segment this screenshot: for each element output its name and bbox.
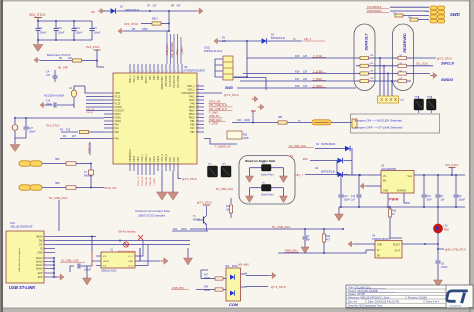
svg-text:PB10: PB10	[134, 155, 136, 161]
svg-text:100nF: 100nF	[441, 267, 448, 269]
connector CN1 shield pin 2	[44, 261, 54, 263]
svg-text:IN: IN	[377, 250, 380, 252]
ground arrow U5 bottom vss1	[161, 171, 163, 192]
svg-text:100nF: 100nF	[40, 32, 47, 35]
power arrow right of STLK_RX rows	[254, 96, 258, 102]
power arrow U4 IN	[348, 241, 352, 247]
svg-text:NC: NC	[298, 121, 302, 123]
ground arrow mid bottom	[187, 248, 189, 258]
wire crystal to OSC pins	[73, 86, 75, 90]
svg-text:2: 2	[198, 109, 199, 111]
svg-text:100nF: 100nF	[29, 131, 36, 134]
svg-text:PA10: PA10	[153, 155, 156, 161]
wire vertical tie of filters	[90, 164, 92, 188]
svg-text:1uF: 1uF	[46, 74, 51, 77]
svg-text:C16: C16	[427, 196, 432, 198]
svg-text:100nF: 100nF	[84, 269, 91, 272]
connector SWD header CN2 pins	[430, 6, 437, 10]
wire 5V_STLK rail after D1	[117, 10, 197, 12]
svg-text:USB ST-LINK: USB ST-LINK	[9, 285, 36, 290]
svg-text:ID: ID	[40, 248, 43, 251]
svg-text:DM: DM	[39, 240, 43, 243]
svg-text:RESERVED: RESERVED	[403, 33, 407, 53]
svg-text:EN: EN	[377, 256, 381, 258]
svg-text:PNP423-11-04-Q: PNP423-11-04-Q	[204, 50, 222, 53]
wire filter1 to resistor	[42, 163, 66, 165]
svg-text:CN1: CN1	[10, 222, 15, 225]
wire 5V_USB_CHG vertical	[58, 200, 60, 231]
power arrow LD4 anode	[272, 273, 276, 279]
svg-text:R14: R14	[204, 287, 209, 289]
resistor R19 near SWD	[395, 14, 403, 17]
ground arrow under C17	[86, 266, 88, 278]
svg-text:SWDIO: SWDIO	[441, 78, 453, 82]
svg-text:PWR_ENn: PWR_ENn	[209, 118, 222, 122]
power arrow solder point 2 left	[246, 196, 254, 203]
wire U3 EN	[366, 185, 381, 187]
ground arrow U3 rail	[338, 207, 340, 214]
dnf marker cross 2	[138, 235, 143, 240]
svg-text:100nF: 100nF	[344, 200, 351, 202]
wire solder point 2 left	[250, 187, 262, 189]
svg-text:USB_DP: USB_DP	[150, 177, 152, 186]
wire U3 Vin stub	[372, 174, 381, 176]
wire after D2 with net labels	[268, 40, 303, 42]
svg-text:2: 2	[198, 98, 199, 100]
diode D4 BAT60JFILM	[305, 174, 337, 176]
ground arrow under C31	[301, 247, 309, 254]
svg-text:PB5: PB5	[158, 75, 160, 80]
svg-text:STLK_RX: STLK_RX	[104, 186, 117, 190]
connector CN11 pin 2	[215, 64, 223, 66]
svg-text:2K7: 2K7	[153, 5, 158, 8]
svg-text:R20: R20	[408, 17, 411, 19]
svg-text:1: 1	[175, 71, 176, 73]
svg-text:5V_USB_CHG: 5V_USB_CHG	[49, 196, 68, 200]
svg-text:100R: 100R	[244, 119, 250, 122]
svg-text:2: 2	[198, 102, 199, 104]
wire T_NRST row	[232, 122, 278, 124]
ground arrow under C8	[434, 280, 443, 287]
svg-text:R18: R18	[295, 85, 300, 88]
capacitor C1 100nF	[37, 21, 39, 28]
svg-text:DNF: DNF	[251, 110, 257, 113]
svg-text:VBUS: VBUS	[36, 236, 43, 239]
svg-text:life.augmented: life.augmented	[450, 305, 461, 308]
wire SWDIO to SWD header	[390, 10, 429, 12]
svg-text:PB12: PB12	[158, 155, 160, 161]
svg-text:OSCIN: OSCIN	[115, 107, 123, 109]
svg-text:T_JRST: T_JRST	[209, 122, 219, 126]
svg-text:VSS_1: VSS_1	[142, 154, 144, 162]
wire CN11 to D2 node	[233, 41, 247, 77]
svg-text:VSS_1: VSS_1	[187, 89, 195, 91]
svg-text:4K7: 4K7	[177, 5, 182, 8]
wire jumper row 4 to CN4 strap	[376, 80, 394, 82]
svg-text:5V_: 5V_	[290, 155, 295, 158]
svg-text:PA7: PA7	[190, 127, 195, 130]
wire OSC_IN	[85, 86, 104, 93]
capacitor C27 100nF	[25, 118, 27, 126]
svg-text:R15: R15	[392, 211, 397, 213]
capacitor C3 100nF	[91, 21, 93, 28]
svg-text:SB5: SB5	[55, 182, 60, 185]
svg-text:PB8: PB8	[142, 75, 144, 80]
svg-text:1: 1	[171, 71, 172, 73]
svg-text:PB12: PB12	[189, 117, 195, 119]
jumper CN4 row 3 default side	[356, 73, 360, 75]
svg-text:3V3_STLK: 3V3_STLK	[86, 45, 100, 49]
wire U1 pins right	[135, 241, 143, 257]
power arrow left of C14	[40, 102, 43, 108]
svg-text:1: 1	[179, 71, 180, 73]
svg-text:PC14: PC14	[115, 100, 121, 102]
wire T_JTCK to jumper block	[247, 57, 356, 59]
jumper CN4 row 2 reserved side	[394, 65, 398, 67]
wire down from R4 node	[97, 61, 104, 68]
wire U3 Vout rail	[414, 174, 465, 176]
wire U5 left pin feed	[86, 96, 104, 98]
svg-text:PB9: PB9	[138, 75, 140, 80]
diode D2 BAT60JFILM	[219, 40, 261, 42]
wire U3 BYPASS stub	[404, 193, 410, 203]
svg-text:SWCLK: SWCLK	[441, 62, 455, 66]
svg-text:R17: R17	[295, 78, 300, 81]
svg-text:Jumpers ON --> NUCLEO Select: Jumpers ON --> NUCLEO Selected	[354, 119, 402, 123]
net 3V3_STLK stub right of bottom pins	[178, 171, 181, 179]
svg-text:USB_DTA: USB_DTA	[172, 286, 184, 290]
svg-text:SB: SB	[58, 67, 62, 70]
solder point SB6 black package	[262, 165, 272, 172]
connector pins right of LD4	[241, 273, 247, 275]
svg-text:C10: C10	[58, 27, 63, 30]
svg-text:CN4: CN4	[370, 78, 374, 80]
wire U1 pins left	[96, 255, 101, 257]
svg-text:Dnf For Nucleo: Dnf For Nucleo	[118, 230, 136, 234]
power arrow solder point 1 left	[246, 176, 254, 183]
svg-text:100nF: 100nF	[94, 32, 101, 35]
wire solder point 1 left	[250, 167, 262, 169]
svg-text:STL_USB_D_P: STL_USB_D_P	[209, 107, 227, 111]
svg-text:GND: GND	[37, 252, 43, 255]
jumper CN4 row 1 default side	[356, 57, 360, 59]
svg-text:PA5: PA5	[115, 131, 120, 134]
svg-text:PA9: PA9	[149, 157, 152, 162]
svg-text:PA12: PA12	[189, 99, 195, 102]
capacitor C13 1uF	[358, 175, 360, 194]
svg-text:Solder Point: Solder Point	[261, 174, 274, 177]
svg-text:1: 1	[159, 71, 160, 73]
svg-text:Date: 11/04/2015 4:41:11 PM: Date: 11/04/2015 4:41:11 PM	[368, 300, 399, 303]
svg-text:COM: COM	[229, 303, 239, 307]
wire T1 emitter row	[172, 230, 208, 232]
svg-text:4K7: 4K7	[72, 135, 77, 138]
svg-text:PB4/NJTRST: PB4/NJTRST	[162, 75, 164, 89]
svg-text:R10: R10	[237, 119, 242, 122]
wire U5 left pin feed	[86, 99, 104, 101]
svg-text:2: 2	[198, 119, 199, 121]
svg-text:100nF: 100nF	[58, 32, 65, 35]
svg-text:1: 1	[147, 71, 148, 73]
connector CN1 shield pin 3	[44, 264, 54, 266]
power arrow right mid bottom	[164, 258, 168, 265]
svg-text:100nF: 100nF	[76, 32, 83, 35]
svg-text:PB0: PB0	[190, 124, 195, 126]
svg-text:3V3_STLK: 3V3_STLK	[124, 22, 139, 26]
ground arrow U5 bottom vss2	[172, 171, 174, 192]
svg-text:TMS/SWDIO: TMS/SWDIO	[181, 93, 194, 95]
svg-text:Reference: MB1136-3/PCB/SC-I_2: Reference: MB1136-3/PCB/SC-I_2/sch	[348, 296, 390, 299]
svg-text:IO_2: IO_2	[128, 266, 134, 268]
svg-text:Sheet 4 of 4: Sheet 4 of 4	[426, 300, 440, 303]
svg-text:PB2/BOOT1: PB2/BOOT1	[130, 148, 132, 161]
svg-text:NRST: NRST	[115, 114, 122, 116]
connector CN1 pin GND	[44, 252, 55, 254]
svg-text:3V3_STLK: 3V3_STLK	[46, 124, 60, 128]
svg-text:PB14: PB14	[189, 110, 195, 112]
connector CN11 pin 3	[215, 70, 223, 72]
mcu U5 left pin stubs	[104, 92, 113, 94]
jumper CN4 row 1 reserved side	[394, 57, 398, 59]
mcu U5 bottom pin stubs	[129, 163, 131, 171]
svg-text:5V_USB_CHG: 5V_USB_CHG	[272, 225, 291, 229]
svg-text:GND: GND	[383, 191, 388, 193]
svg-text:C11: C11	[76, 27, 81, 30]
svg-text:Jumpers OFF --> ST-LINK Select: Jumpers OFF --> ST-LINK Selected	[354, 126, 403, 130]
svg-text:2: 2	[198, 112, 199, 114]
svg-text:BAT60JFILM: BAT60JFILM	[321, 171, 335, 174]
svg-text:@Y3_STLK: @Y3_STLK	[224, 93, 239, 97]
svg-text:T_SWDIO_IN: T_SWDIO_IN	[215, 146, 230, 149]
svg-text:1: 1	[155, 71, 156, 73]
svg-text:10nF: 10nF	[427, 200, 433, 202]
svg-text:Solder Point: Solder Point	[261, 194, 274, 197]
svg-text:5V_USB_CHG: 5V_USB_CHG	[216, 187, 233, 191]
svg-text:VSS_2: VSS_2	[162, 154, 164, 162]
svg-text:2: 2	[198, 123, 199, 125]
svg-text:PWR: PWR	[389, 197, 398, 202]
svg-text:Revision: C01/SB: Revision: C01/SB	[408, 296, 427, 299]
svg-text:1: 1	[131, 71, 132, 73]
jumper CN4 row 4 default side	[356, 80, 360, 82]
svg-text:2: 2	[198, 116, 199, 118]
svg-text:10K: 10K	[222, 40, 227, 43]
wire junction 5V rail to SB17	[168, 11, 170, 24]
svg-text:1: 1	[135, 71, 136, 73]
svg-text:PA3: PA3	[173, 157, 176, 162]
mcu U5 STM32F103CBT6 body	[113, 73, 197, 164]
wire solder point 1 right	[271, 167, 284, 169]
wire jumper row 3 to CN4 strap	[376, 73, 394, 75]
jumper CN4 row 4 reserved side	[394, 80, 398, 82]
svg-text:VBAT: VBAT	[115, 92, 121, 95]
svg-text:4K7: 4K7	[326, 240, 331, 242]
svg-text:PA14/JTCK: PA14/JTCK	[173, 75, 176, 87]
svg-text:Dnf For Nucleo: Dnf For Nucleo	[118, 250, 136, 254]
wire NRST rail	[15, 117, 104, 119]
power arrow solder point 1 right	[280, 176, 288, 183]
svg-text:USBLC6-2SC6: USBLC6-2SC6	[101, 271, 117, 273]
solder point SB7 black package	[262, 185, 272, 192]
wire ferrite to right	[331, 122, 352, 124]
svg-text:PB1: PB1	[190, 121, 195, 123]
connector CN1 shield pin 1	[44, 257, 54, 259]
svg-text:1: 1	[151, 71, 152, 73]
svg-text:USB_uB ZX62R-B-5P: USB_uB ZX62R-B-5P	[10, 227, 33, 229]
svg-text:T_SWO: T_SWO	[209, 110, 218, 114]
diode D1 BAT60JFILM	[104, 10, 110, 12]
wire T_SWDIO_IN staircase	[204, 139, 237, 145]
svg-text:U5: U5	[184, 65, 188, 69]
wire VBUS down to 5V_USB_CHG	[91, 237, 93, 253]
power arrow shield	[60, 274, 64, 280]
svg-text:SB17: SB17	[152, 18, 159, 21]
svg-text:PB15: PB15	[189, 107, 195, 109]
capacitor C16 10nF	[423, 175, 425, 194]
svg-text:T_SWO: T_SWO	[154, 178, 156, 186]
wire jumper row 2 to CN4 strap	[376, 65, 394, 67]
svg-text:@Y3_STLK: @Y3_STLK	[437, 56, 452, 60]
svg-text:R16: R16	[295, 70, 300, 73]
connector CN1 pin ID	[44, 248, 55, 250]
svg-text:Size: A4: Size: A4	[348, 300, 357, 303]
wire decoupling bottom rail	[38, 39, 92, 41]
svg-text:CN4: CN4	[400, 100, 405, 102]
svg-text:PA0: PA0	[115, 123, 120, 126]
svg-text:VDD_1: VDD_1	[187, 86, 195, 88]
svg-text:5V_USB_CHG: 5V_USB_CHG	[61, 259, 79, 263]
svg-text:PA6: PA6	[115, 137, 120, 140]
svg-text:PA11: PA11	[189, 95, 195, 98]
svg-text:PA1: PA1	[115, 127, 120, 130]
svg-text:OUT: OUT	[395, 249, 401, 253]
component right yellow stub	[352, 119, 357, 128]
wire jumper row 1 to CN4 strap	[376, 57, 394, 59]
svg-text:PB7: PB7	[150, 75, 152, 80]
wire 5V_USB_CHG top rail	[190, 228, 343, 230]
svg-text:STLK_RX: STLK_RX	[142, 176, 144, 186]
esd chip U1 USBLC6-2SC6	[101, 252, 135, 268]
svg-text:RED: RED	[444, 230, 449, 232]
wire U3 GND stub	[387, 193, 389, 207]
capacitor C11 100nF	[73, 21, 75, 28]
svg-text:VDD_3: VDD_3	[130, 75, 132, 83]
connector CN1 EXP pin 1	[44, 272, 54, 274]
wire VBUS	[55, 236, 92, 238]
connector CN1 pin DM	[44, 240, 55, 242]
svg-text:SWD: SWD	[450, 12, 460, 17]
svg-text:3V3_STLK: 3V3_STLK	[445, 163, 459, 167]
svg-text:2: 2	[198, 95, 199, 97]
svg-text:AIN_1: AIN_1	[176, 48, 179, 55]
svg-text:Virtual-com port numbers follo: Virtual-com port numbers follow	[135, 210, 170, 213]
svg-text:DP: DP	[39, 244, 43, 247]
svg-text:5V: 5V	[293, 38, 296, 41]
svg-text:2: 2	[198, 88, 199, 90]
svg-text:SB3: SB3	[55, 158, 60, 161]
logo ST	[447, 286, 469, 308]
mcu U5 top pin stubs	[129, 64, 131, 73]
svg-text:PWR_ENn: PWR_ENn	[285, 249, 298, 253]
power arrow solder point 2 right	[280, 196, 288, 203]
svg-text:STL_USB_D_N: STL_USB_D_N	[209, 103, 227, 107]
wire SWCLK to SWD header	[390, 6, 429, 8]
ferrite bead FB1	[312, 120, 331, 125]
svg-text:R19: R19	[393, 13, 396, 15]
svg-text:BAT60JFILM: BAT60JFILM	[271, 37, 285, 40]
svg-text:1: 1	[139, 71, 140, 73]
wire U5 left pin feed	[86, 106, 104, 108]
svg-text:STM32F103CBT6: STM32F103CBT6	[184, 69, 205, 73]
svg-text:USB/T2 (CDC) standard.: USB/T2 (CDC) standard.	[138, 215, 166, 218]
svg-text:R20: R20	[243, 135, 248, 137]
svg-text:GND: GND	[377, 245, 382, 247]
power arrow EN left	[360, 183, 364, 189]
svg-text:1uF: 1uF	[441, 200, 446, 202]
svg-text:USB_PU: USB_PU	[209, 114, 220, 118]
svg-text:2: 2	[198, 130, 199, 132]
wire DP	[55, 244, 190, 246]
svg-text:Shield: Shield	[36, 268, 43, 271]
wire 3V3_STLK vertical feed	[34, 17, 42, 19]
svg-text:STLK_RX: STLK_RX	[209, 100, 221, 104]
wire OSC_OUT	[73, 105, 75, 108]
capacitor C10 100nF	[55, 21, 57, 28]
svg-text:@Y3_STLK: @Y3_STLK	[271, 285, 286, 289]
svg-text:@Y3_STLK: @Y3_STLK	[197, 201, 212, 205]
svg-text:USB_Micro-B receptacle: USB_Micro-B receptacle	[18, 247, 21, 272]
svg-text:100nF: 100nF	[459, 200, 466, 202]
svg-text:R15: R15	[295, 55, 300, 58]
svg-text:P13: P13	[66, 129, 71, 132]
svg-text:100R: 100R	[181, 229, 187, 231]
svg-text:CN4: CN4	[370, 63, 374, 65]
capacitor C9 100nF	[455, 175, 457, 194]
svg-text:1uF: 1uF	[351, 200, 356, 202]
svg-text:GND: GND	[128, 261, 133, 263]
wire decoupling top rail	[38, 20, 92, 22]
svg-text:FAULT: FAULT	[393, 244, 401, 247]
svg-text:C12: C12	[344, 196, 349, 198]
svg-text:1: 1	[143, 71, 144, 73]
dnf marker circle-cross 1	[123, 242, 128, 247]
svg-text:U5V_7: U5V_7	[295, 173, 303, 177]
capacitor C12 100nF	[340, 175, 342, 194]
wire U5 left pin feed	[86, 103, 104, 105]
svg-text:1: 1	[163, 71, 164, 73]
svg-text:SWD: SWD	[225, 86, 233, 90]
svg-text:BAT60JFILM: BAT60JFILM	[322, 143, 336, 146]
svg-text:CN4: CN4	[370, 71, 374, 73]
connector CN1 pin VBUS	[44, 236, 55, 238]
svg-text:PB11: PB11	[138, 155, 140, 161]
svg-text:3V3_STLK: 3V3_STLK	[29, 13, 46, 17]
wire bundle into U5 top pins	[166, 31, 168, 64]
net label SWCLK	[411, 65, 433, 67]
svg-text:PA2: PA2	[169, 157, 172, 162]
capacitor C17 100nF at CN1	[78, 264, 80, 269]
jumper CN4 row 2 default side	[356, 65, 360, 67]
svg-text:DEFAULT: DEFAULT	[365, 33, 369, 50]
svg-text:PB3/JTDO: PB3/JTDO	[166, 75, 168, 86]
svg-text:BYPASS: BYPASS	[397, 190, 406, 193]
svg-text:NX3215SA-8.000M: NX3215SA-8.000M	[44, 95, 64, 98]
svg-text:STL_JCLK: STL_JCLK	[416, 63, 428, 66]
power arrow left near R1	[214, 38, 217, 44]
connector CN1 pin DP	[44, 244, 55, 246]
svg-text:JP7: JP7	[262, 183, 265, 185]
wire DM	[55, 240, 190, 242]
